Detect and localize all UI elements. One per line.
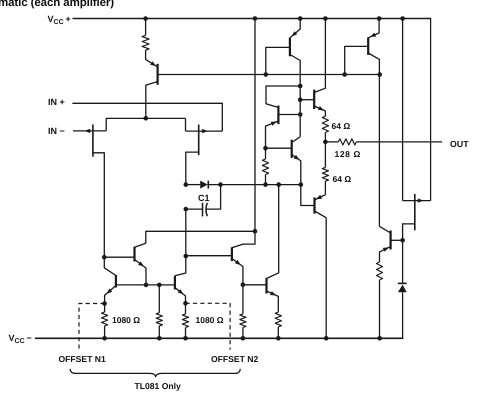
node D1 line / R7 junction (263, 182, 268, 187)
wire VCC+ rail right corner down (430, 18, 432, 201)
resistor R_mid (156, 313, 162, 326)
JFET J2 source lead (403, 224, 415, 240)
transistor Q4 (NPN cascode) base lead (300, 99, 314, 101)
transistor Q_D emitter lead (232, 259, 243, 285)
node VCC+ / long left vertical junction (253, 16, 258, 21)
wire R3 bottom lead (185, 328, 187, 339)
node VCC- / R2 junction (102, 336, 107, 341)
wire Q_E base line (243, 284, 267, 286)
resistor R2 1080ohm (102, 312, 108, 326)
wire VCC+ top rail (73, 18, 431, 20)
transistor Q10 base bar (313, 197, 315, 213)
wire IN+ lead (72, 103, 222, 131)
wire T_D base line (186, 255, 232, 257)
node second-stage vertical / Q4 base tap (298, 97, 303, 102)
transistor Q1 collector lead (146, 82, 158, 119)
label OFFSET N2 (211, 354, 258, 364)
node bias rail / Q7 collector junction (377, 72, 382, 77)
resistor R8 64ohm upper (322, 116, 328, 132)
transistor Q9 base bar (390, 231, 392, 250)
transistor Q_D base bar (231, 247, 233, 261)
wire C1 right lead (206, 185, 220, 210)
label VCC+ (48, 14, 71, 26)
wire D1 cathode line (208, 184, 300, 186)
wire R7 top lead (265, 148, 267, 159)
transistor Q_D emitter arrow (235, 260, 241, 265)
JFET J1B gate/source horizontal (186, 130, 223, 132)
wire R1 to Q1 emitter (145, 50, 147, 59)
wire C1 left lead (186, 208, 203, 210)
transistor Q6 emitter lead (266, 121, 279, 148)
wire from VCC+ to R1 (145, 19, 147, 36)
transistor Q1 base bar (157, 64, 159, 85)
brace TL081 only (70, 369, 240, 377)
transistor Q_A (NPN mirror) collector diag (135, 243, 146, 247)
transistor Q_E base bar (265, 278, 267, 294)
node D1 line / JFET drain junction (184, 182, 189, 187)
wire OFFSET N1 dashed tap (79, 304, 105, 349)
transistor Q_A emitter lead (135, 260, 147, 285)
node VCC- / R3 junction (183, 336, 188, 341)
resistor R10 64ohm lower (322, 167, 328, 181)
diode D2 cathode bar (398, 282, 407, 284)
diode D1 triangle (200, 181, 208, 189)
title text (cut off at top) (0, 0, 114, 9)
transistor Q1 emitter arrow (150, 61, 156, 66)
label 128 ohm (335, 149, 361, 159)
transistor Q10 (PNP lower output) emitter lead (315, 195, 326, 200)
node Q6 emitter / Q5 base / R7 junction (263, 146, 268, 151)
transistor Q5 collector lead (292, 137, 301, 143)
JFET J1B channel bar (198, 125, 200, 156)
wire R9 to OUT terminal (356, 141, 442, 143)
transistor Q_E emitter arrow (270, 291, 276, 295)
node Q_D emitter / Q_E base / R4 junction (241, 282, 246, 287)
transistor Q4 collector lead (314, 19, 325, 93)
label 64 ohm lower (333, 174, 352, 184)
transistor Q6 base lead (278, 114, 300, 116)
resistor R6 (376, 262, 382, 280)
wire Q11 collector vertical (267, 185, 279, 279)
transistor Q4 emitter lead (314, 106, 325, 116)
node VCC- / Q10 collector junction (324, 336, 329, 341)
transistor Q7 base bar (367, 37, 369, 55)
node VCC- / R_mid junction (157, 336, 162, 341)
label 64 ohm upper (332, 121, 351, 131)
transistor Q6 emitter arrow (271, 122, 277, 126)
wire VCC- bottom rail (35, 337, 403, 339)
node D1 line / Q11 collector junction (276, 182, 281, 187)
node C1 / middle column junction (184, 207, 189, 212)
label 1080 ohm right (196, 315, 224, 325)
transistor Q7 collector lead (368, 53, 379, 226)
node second-stage vertical / Q6 base tap (298, 112, 303, 117)
node VCC- / R4 junction (241, 336, 246, 341)
resistor R9 128ohm (338, 139, 356, 145)
wire middle column vertical (185, 209, 187, 256)
node VCC+ / R1 junction (143, 16, 148, 21)
node Q_B emitter / R2 / offset N1 junction (102, 301, 107, 306)
transistor Q5 (NPN second stage) base lead (266, 147, 292, 149)
JFET J1B gate arrow (IN+) (202, 129, 208, 133)
wire R_mid bottom lead (158, 326, 160, 338)
diode D2 triangle (398, 285, 407, 293)
wire R10 to Q10 emitter (324, 181, 326, 195)
node D1 line / Q5 emitter junction (299, 182, 304, 187)
JFET J1A gate arrow (IN-) (84, 129, 90, 133)
wire bias rail (bases of Q1,Q3,Q7) (158, 74, 380, 76)
wire IN- lead (73, 130, 106, 132)
wire R6 bottom lead (379, 280, 381, 338)
label C1 (198, 193, 210, 203)
transistor Q3 base bar (289, 38, 291, 57)
node Q_C emitter / R3 / offset N2 junction (183, 301, 188, 306)
transistor Q5 emitter lead (292, 155, 301, 185)
wire mirror base rail (116, 284, 175, 286)
transistor Q_A base lead (104, 256, 134, 258)
transistor Q3 (PNP mirror) emitter lead (290, 19, 300, 38)
node VCC+ / Q7 emitter junction (377, 16, 382, 21)
wire output node to R9 (325, 141, 338, 143)
transistor Q_B emitter lead (105, 286, 116, 304)
transistor Q10 collector lead (315, 211, 327, 338)
label VCC- (9, 333, 32, 345)
label OFFSET N1 (59, 354, 106, 364)
wire R4 bottom lead (242, 328, 244, 339)
capacitor C1 left plate (202, 203, 204, 217)
JFET J1A channel bar (92, 125, 94, 157)
wire VCC+ to J2 (402, 19, 404, 201)
transistor Q10 base lead (301, 185, 315, 206)
resistor R3 1080ohm (182, 314, 188, 328)
node bias rail / Q3 base junction (264, 72, 269, 77)
label 1080 ohm left (112, 315, 140, 325)
transistor Q_B emitter arrow (107, 289, 113, 294)
node second-stage vertical / Q6 collector tap (298, 84, 303, 89)
wire R7 bottom lead (265, 175, 267, 185)
wire R_mid top lead (158, 285, 160, 313)
transistor Q7 base lead (345, 46, 369, 74)
transistor Q3 emitter arrow (291, 31, 297, 36)
transistor Q4 emitter arrow (318, 106, 324, 110)
transistor Q3 base lead (266, 47, 290, 74)
transistor Q_C collector lead (175, 256, 186, 276)
node Q9 base / J2 source / D2 cathode junction (400, 238, 405, 243)
node D1 cathode / C1 junction (218, 182, 223, 187)
resistor R1 (142, 35, 149, 50)
label IN+ (48, 97, 65, 107)
node R6 / VCC- rail junction (377, 336, 382, 341)
transistor Q_B collector lead (104, 257, 116, 275)
node base rail / Q_A emitter junction (144, 283, 149, 288)
transistor Q1 (PNP current source) emitter lead (146, 59, 158, 67)
transistor Q_A base bar (133, 247, 135, 262)
transistor Q9 base lead (391, 239, 403, 241)
transistor Q_A emitter arrow (138, 261, 144, 266)
label OUT (450, 139, 469, 149)
wire JFET common source bracket (146, 117, 186, 119)
JFET J1A drain lead (93, 153, 104, 257)
transistor Q7 emitter arrow (370, 33, 376, 37)
label IN- (48, 126, 65, 136)
diode D1 cathode bar (207, 181, 209, 189)
JFET J1A source lead (106, 118, 146, 130)
resistor R7 (262, 159, 268, 175)
node VCC- / R5 junction (276, 336, 281, 341)
wire D1 anode line (186, 184, 200, 186)
node left column / Q_A base junction (102, 255, 107, 260)
transistor Q9 emitter lead (380, 247, 391, 263)
wire R2 top lead (104, 304, 106, 313)
label TL081 Only (135, 381, 181, 391)
transistor Q_B base bar (115, 275, 117, 288)
node VCC+ / Q4 collector junction (323, 16, 328, 21)
wire Q6 collector to second stage (266, 86, 300, 108)
wire T_D collector lead (232, 231, 255, 248)
transistor Q6 (PNP) base bar (277, 106, 279, 125)
node VCC+ / Q3 emitter junction (298, 16, 303, 21)
wire VCC+ long vertical to mirror (254, 19, 256, 232)
wire D2 anode lead (402, 292, 404, 339)
node output resistor junction (323, 140, 328, 145)
JFET J2 channel bar (414, 194, 416, 230)
transistor Q10 emitter arrow (316, 195, 322, 200)
node mirror collector line junction (253, 229, 258, 234)
transistor Q7 (PNP diode-connected) emitter lead (368, 19, 379, 38)
wire R4 top lead (242, 285, 244, 314)
capacitor C1 right curved plate (206, 203, 207, 216)
node VCC+ / J2 drain junction (400, 16, 405, 21)
transistor Q3 collector lead (290, 55, 300, 137)
node middle column / T_D base junction (184, 254, 189, 259)
wire T_A collector line (146, 231, 255, 243)
resistor R4 (240, 314, 246, 328)
transistor Q_C emitter lead (175, 288, 186, 304)
wire OFFSET N2 dashed tap (186, 303, 231, 349)
wire output node down (324, 142, 326, 168)
transistor Q5 emitter arrow (294, 155, 300, 160)
JFET J1B drain lead (186, 152, 199, 185)
wire R3 top lead (185, 303, 187, 314)
node bias rail / Q7 base junction (342, 72, 347, 77)
wire D2 cathode lead (402, 240, 404, 283)
node base rail / R_mid junction (157, 283, 162, 288)
transistor Q4 base bar (313, 90, 315, 109)
transistor Q_E emitter lead (267, 291, 279, 312)
wire R2 bottom lead (104, 326, 106, 338)
transistor Q9 emitter arrow (383, 247, 389, 252)
JFET J1B source lead (185, 118, 187, 131)
transistor Q_C base bar (174, 276, 176, 290)
transistor Q5 base bar (291, 140, 293, 158)
JFET J2 gate/drain horizontal (403, 200, 431, 202)
JFET J2 gate arrow (418, 198, 424, 202)
wire R5 bottom lead (277, 327, 279, 338)
wire R8 to output node (324, 133, 326, 142)
node Q1 collector / JFET sources junction (144, 116, 149, 121)
transistor Q_C emitter arrow (178, 289, 184, 294)
transistor Q9 collector diag (379, 226, 390, 233)
resistor R5 (275, 312, 281, 327)
